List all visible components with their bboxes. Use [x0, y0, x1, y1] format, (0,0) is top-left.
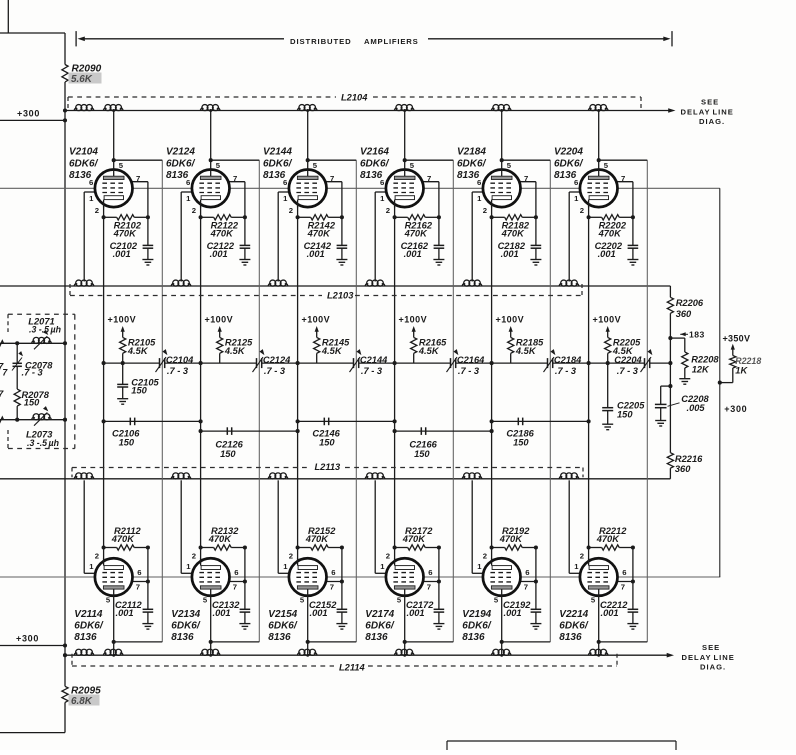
svg-text:1: 1 — [89, 194, 94, 203]
svg-text:.001: .001 — [213, 608, 231, 618]
svg-text:5: 5 — [507, 161, 512, 170]
svg-text:.001: .001 — [210, 249, 228, 259]
svg-text:1: 1 — [283, 194, 288, 203]
svg-text:8136: 8136 — [268, 632, 291, 643]
svg-text:R2208: R2208 — [691, 355, 719, 365]
svg-text:470K: 470K — [404, 229, 429, 239]
svg-text:2: 2 — [386, 551, 390, 560]
svg-text:7: 7 — [524, 174, 528, 183]
svg-text:6DK6/: 6DK6/ — [554, 159, 584, 170]
svg-text:470K: 470K — [208, 534, 233, 544]
svg-text:150: 150 — [131, 385, 147, 395]
svg-text:2: 2 — [483, 206, 487, 215]
svg-text:7: 7 — [233, 582, 237, 591]
svg-text:L2103: L2103 — [327, 291, 354, 301]
svg-text:1: 1 — [574, 562, 579, 571]
svg-text:150: 150 — [617, 409, 633, 419]
svg-text:470K: 470K — [501, 229, 526, 239]
svg-text:5: 5 — [313, 161, 318, 170]
svg-text:.001: .001 — [307, 249, 325, 259]
svg-text:+100V: +100V — [399, 315, 428, 325]
svg-text:5: 5 — [397, 596, 402, 605]
svg-text:C2144: C2144 — [360, 355, 388, 365]
svg-text:2: 2 — [95, 206, 99, 215]
svg-text:4.5K: 4.5K — [127, 346, 149, 356]
svg-text:1: 1 — [477, 194, 482, 203]
svg-text:12K: 12K — [692, 365, 710, 375]
svg-text:7: 7 — [427, 582, 431, 591]
svg-text:.001: .001 — [113, 249, 131, 259]
svg-text:V2214: V2214 — [559, 609, 588, 620]
svg-text:2: 2 — [95, 551, 99, 560]
svg-text:.001: .001 — [116, 608, 134, 618]
svg-text:DELAY: DELAY — [682, 653, 712, 662]
svg-text:6: 6 — [331, 568, 335, 577]
svg-text:5: 5 — [591, 596, 596, 605]
svg-text:R2218: R2218 — [735, 356, 761, 366]
svg-text:C2184: C2184 — [554, 355, 582, 365]
svg-text:7: 7 — [621, 582, 625, 591]
svg-text:5: 5 — [106, 596, 111, 605]
svg-text:150: 150 — [220, 449, 236, 459]
svg-text:6DK6/: 6DK6/ — [559, 621, 589, 632]
svg-text:2: 2 — [580, 551, 584, 560]
svg-text:µh: µh — [48, 438, 59, 448]
svg-text:V2104: V2104 — [69, 147, 98, 158]
svg-text:LINE: LINE — [713, 108, 734, 117]
svg-text:8136: 8136 — [171, 632, 194, 643]
svg-text:6DK6/: 6DK6/ — [268, 621, 298, 632]
svg-text:6DK6/: 6DK6/ — [365, 621, 395, 632]
svg-text:5: 5 — [203, 596, 208, 605]
svg-text:V2164: V2164 — [360, 147, 389, 158]
svg-text:6DK6/: 6DK6/ — [74, 621, 104, 632]
svg-text:1: 1 — [186, 194, 191, 203]
svg-text:.001: .001 — [504, 608, 522, 618]
svg-text:183: 183 — [689, 330, 705, 340]
svg-text:6: 6 — [137, 568, 141, 577]
svg-text:C2164: C2164 — [457, 355, 485, 365]
svg-text:6DK6/: 6DK6/ — [360, 159, 390, 170]
svg-text:2: 2 — [386, 206, 390, 215]
svg-text:1: 1 — [89, 562, 94, 571]
svg-text:470K: 470K — [598, 229, 623, 239]
svg-text:150: 150 — [414, 449, 430, 459]
svg-text:150: 150 — [24, 398, 40, 408]
svg-text:7: 7 — [330, 582, 334, 591]
svg-text:L2114: L2114 — [339, 662, 366, 672]
svg-text:470K: 470K — [499, 534, 524, 544]
svg-text:1: 1 — [186, 562, 191, 571]
svg-text:470K: 470K — [305, 534, 330, 544]
svg-text:L2113: L2113 — [315, 462, 342, 472]
svg-text:5: 5 — [119, 161, 124, 170]
svg-text:V2144: V2144 — [263, 147, 292, 158]
svg-text:DIAG.: DIAG. — [699, 117, 725, 126]
svg-text:470K: 470K — [113, 229, 138, 239]
svg-text:6: 6 — [525, 568, 529, 577]
svg-text:360: 360 — [676, 309, 692, 319]
svg-text:2: 2 — [483, 551, 487, 560]
svg-text:.7 - 3: .7 - 3 — [458, 366, 480, 376]
svg-text:5: 5 — [300, 596, 305, 605]
svg-text:8136: 8136 — [69, 170, 92, 181]
svg-text:2: 2 — [580, 206, 584, 215]
svg-text:470K: 470K — [307, 229, 332, 239]
svg-text:7: 7 — [233, 174, 237, 183]
svg-text:1: 1 — [283, 562, 288, 571]
svg-text:5.6K: 5.6K — [71, 74, 93, 85]
svg-text:.001: .001 — [501, 249, 519, 259]
svg-text:6DK6/: 6DK6/ — [462, 621, 492, 632]
svg-text:6DK6/: 6DK6/ — [166, 159, 196, 170]
svg-text:8136: 8136 — [74, 632, 97, 643]
svg-text:7: 7 — [524, 582, 528, 591]
svg-text:2: 2 — [192, 206, 196, 215]
svg-text:8136: 8136 — [360, 170, 383, 181]
svg-text:µh: µh — [50, 325, 61, 335]
svg-text:R2206: R2206 — [676, 298, 704, 308]
svg-text:6: 6 — [428, 568, 432, 577]
svg-text:R2216: R2216 — [675, 454, 703, 464]
svg-text:8136: 8136 — [554, 170, 577, 181]
svg-text:4.5K: 4.5K — [321, 346, 343, 356]
svg-text:.001: .001 — [407, 608, 425, 618]
svg-text:6DK6/: 6DK6/ — [171, 621, 201, 632]
svg-text:.001: .001 — [404, 249, 422, 259]
svg-text:V2174: V2174 — [365, 609, 394, 620]
svg-text:V2124: V2124 — [166, 147, 195, 158]
svg-text:DIAG.: DIAG. — [700, 663, 726, 672]
svg-text:150: 150 — [513, 438, 529, 448]
svg-text:+100V: +100V — [108, 315, 137, 325]
svg-text:8136: 8136 — [166, 170, 189, 181]
svg-text:7: 7 — [136, 174, 140, 183]
svg-text:6: 6 — [234, 568, 238, 577]
svg-text:.7 - 3: .7 - 3 — [617, 366, 639, 376]
svg-text:6.8K: 6.8K — [71, 696, 93, 707]
svg-text:SEE: SEE — [701, 98, 719, 107]
svg-text:C2204: C2204 — [614, 355, 642, 365]
svg-text:V2134: V2134 — [171, 609, 200, 620]
svg-text:+350V: +350V — [723, 333, 751, 343]
svg-text:8136: 8136 — [559, 632, 582, 643]
svg-text:2: 2 — [289, 206, 293, 215]
svg-text:470K: 470K — [402, 534, 427, 544]
svg-text:L2104: L2104 — [341, 93, 368, 103]
svg-text:V2154: V2154 — [268, 609, 297, 620]
svg-text:2: 2 — [289, 551, 293, 560]
svg-text:V2204: V2204 — [554, 147, 583, 158]
svg-text:DELAY: DELAY — [681, 108, 711, 117]
svg-text:8136: 8136 — [365, 632, 388, 643]
svg-text:.005: .005 — [687, 403, 706, 413]
svg-text:6: 6 — [622, 568, 626, 577]
svg-text:5: 5 — [494, 596, 499, 605]
svg-text:1K: 1K — [735, 366, 748, 376]
svg-text:8136: 8136 — [457, 170, 480, 181]
svg-text:8136: 8136 — [462, 632, 485, 643]
svg-text:.7 - 3: .7 - 3 — [361, 366, 383, 376]
svg-text:150: 150 — [319, 438, 335, 448]
svg-text:7: 7 — [427, 174, 431, 183]
svg-text:5: 5 — [604, 161, 609, 170]
svg-text:470K: 470K — [210, 229, 235, 239]
svg-text:+100V: +100V — [593, 315, 622, 325]
svg-text:.001: .001 — [598, 249, 616, 259]
svg-text:.7 - 3: .7 - 3 — [555, 366, 577, 376]
svg-text:1: 1 — [477, 562, 482, 571]
svg-text:DISTRIBUTED: DISTRIBUTED — [290, 37, 352, 46]
svg-text:2: 2 — [192, 551, 196, 560]
svg-text:1: 1 — [380, 194, 385, 203]
svg-text:0 7: 0 7 — [0, 368, 8, 378]
svg-text:7: 7 — [330, 174, 334, 183]
svg-text:+100V: +100V — [205, 315, 234, 325]
svg-text:.3 -.5: .3 -.5 — [27, 438, 47, 448]
svg-text:4.5K: 4.5K — [224, 346, 246, 356]
svg-text:470K: 470K — [111, 534, 136, 544]
svg-text:AMPLIFIERS: AMPLIFIERS — [364, 37, 419, 46]
svg-text:+100V: +100V — [496, 315, 525, 325]
svg-text:C2124: C2124 — [263, 355, 291, 365]
svg-text:+300: +300 — [724, 404, 747, 414]
svg-text:8136: 8136 — [263, 170, 286, 181]
svg-text:+300: +300 — [17, 109, 40, 119]
svg-text:4.5K: 4.5K — [418, 346, 440, 356]
svg-text:150: 150 — [119, 438, 135, 448]
svg-text:1: 1 — [380, 562, 385, 571]
svg-text:470K: 470K — [596, 534, 621, 544]
svg-text:7: 7 — [136, 582, 140, 591]
svg-text:5: 5 — [410, 161, 415, 170]
svg-text:+300: +300 — [16, 634, 39, 644]
svg-text:V2114: V2114 — [74, 609, 103, 620]
svg-text:C2104: C2104 — [166, 355, 194, 365]
svg-text:6DK6/: 6DK6/ — [457, 159, 487, 170]
svg-text:.7 - 3: .7 - 3 — [264, 366, 286, 376]
svg-text:.001: .001 — [601, 608, 619, 618]
svg-text:.7 - 3: .7 - 3 — [22, 368, 44, 378]
svg-text:7: 7 — [621, 174, 625, 183]
svg-text:.7 - 3: .7 - 3 — [167, 366, 189, 376]
svg-text:SEE: SEE — [702, 643, 720, 652]
svg-text:1: 1 — [574, 194, 579, 203]
svg-text:V2184: V2184 — [457, 147, 486, 158]
svg-text:V2194: V2194 — [462, 609, 491, 620]
svg-text:360: 360 — [675, 464, 691, 474]
svg-text:4.5K: 4.5K — [515, 346, 537, 356]
svg-text:LINE: LINE — [714, 653, 735, 662]
svg-text:6DK6/: 6DK6/ — [69, 159, 99, 170]
svg-text:6DK6/: 6DK6/ — [263, 159, 293, 170]
svg-text:.001: .001 — [310, 608, 328, 618]
svg-text:5: 5 — [216, 161, 221, 170]
svg-text:+100V: +100V — [302, 315, 331, 325]
